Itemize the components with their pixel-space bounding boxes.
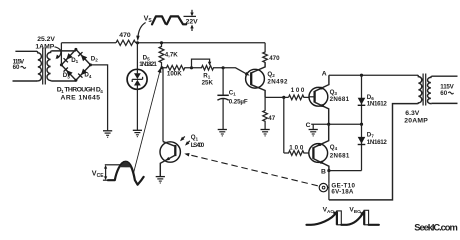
- node A label and rail: [322, 71, 418, 78]
- node junction dot D6 top: [360, 74, 363, 77]
- label: 115V 60~ input: [13, 59, 26, 71]
- label Q4 2N681: [330, 144, 350, 160]
- diode D1 (upper-left edge, pointing to left corner): [64, 53, 73, 62]
- svg-text:20AMP: 20AMP: [404, 118, 428, 125]
- ground (node C): [309, 124, 318, 136]
- light arrows into Q1: [180, 136, 190, 145]
- label D6 1N1612: [367, 94, 388, 107]
- svg-text:2N681: 2N681: [330, 153, 350, 160]
- transformer T1 core: [43, 48, 46, 85]
- transformer T1 primary winding: [37, 51, 42, 81]
- wire: main 22V bus: [61, 42, 116, 44]
- diode D2 (upper-right edge, pointing to top corner): [78, 52, 87, 61]
- label D5 1N1821: [139, 54, 157, 68]
- svg-text:25.2V: 25.2V: [37, 36, 55, 43]
- resistor 100K horizontal: [162, 65, 192, 70]
- label 4,7K: [165, 51, 179, 58]
- bridge rectifier diamond D1-D4: [61, 49, 90, 80]
- svg-text:A: A: [322, 71, 327, 78]
- svg-text:1N1821: 1N1821: [139, 61, 157, 68]
- SCR Q3 2N681: [309, 75, 329, 124]
- wire: D5 bottom to ground: [136, 89, 138, 130]
- potentiometer R1 25K (rheostat with wiper loop): [192, 59, 224, 70]
- labels VAO VBO with pointers: [323, 207, 365, 216]
- wire: bridge right corner to ground: [91, 65, 108, 130]
- label: D1 THROUGH D4 ARE 1N645: [57, 87, 103, 102]
- label 115V 60~ output: [440, 84, 454, 97]
- wire: bridge left corner up to main bus: [60, 43, 62, 65]
- diode D3 (lower-left edge, pointing to left corner): [64, 67, 73, 76]
- wire: secondary bottom lead to bridge bottom corner: [52, 80, 76, 82]
- diode D4 (lower-right edge, pointing to bottom corner): [78, 69, 87, 78]
- label Q1 LS400: [191, 134, 205, 149]
- svg-text:47: 47: [268, 115, 275, 122]
- wire: 115V primary top lead: [15, 50, 36, 52]
- label: 25.2V 1AMP with arrow: [35, 36, 60, 59]
- thin arrow from VCE waveform to Q1 collector node: [133, 67, 161, 173]
- svg-text:25K: 25K: [202, 80, 214, 87]
- svg-text:0.25µF: 0.25µF: [229, 98, 248, 105]
- label D2: [91, 55, 98, 62]
- resistor 4.7K vertical: [159, 43, 164, 68]
- phototransistor Q1 LS400: [160, 68, 180, 177]
- svg-text:1AMP: 1AMP: [35, 44, 54, 51]
- diode D6 1N1612: [358, 75, 366, 124]
- ground (Q1 emitter): [156, 177, 165, 183]
- wire: bottom return rail to output transformer: [329, 104, 418, 200]
- resistor 470 (series, on bus): [116, 40, 136, 45]
- wire: bus continues to 470 vertical corner: [136, 42, 266, 44]
- svg-text:B: B: [321, 169, 326, 176]
- ground (C1): [218, 130, 227, 136]
- watermark SeekIC.com: [414, 221, 458, 232]
- label D7 1N1612: [367, 131, 388, 146]
- unijunction transistor Q2 2N492: [246, 63, 266, 98]
- ground (47 ohm): [261, 130, 270, 136]
- node junction dot gate branch: [282, 96, 285, 99]
- label 100: [291, 87, 305, 94]
- svg-text:100: 100: [289, 144, 304, 151]
- label D1: [71, 57, 78, 64]
- svg-text:1N1612: 1N1612: [367, 100, 388, 107]
- zener D5 1N1821 (in circle): [127, 43, 147, 90]
- diode D7 1N1612: [358, 124, 366, 170]
- label 470: [269, 55, 280, 62]
- svg-text:22V: 22V: [186, 18, 199, 25]
- label Q2 2N492: [267, 71, 288, 85]
- svg-text:2N492: 2N492: [267, 78, 288, 85]
- node Vs junction dot on bus: [136, 41, 139, 44]
- label D4: [84, 72, 91, 79]
- node junction dots on C rail: [327, 123, 363, 126]
- node junction dot R1 wiper tap: [190, 66, 193, 69]
- svg-text:D1 THROUGH D4: D1 THROUGH D4: [57, 87, 103, 94]
- wire: secondary top lead to bridge top corner: [52, 50, 76, 52]
- resistor 100 (Q4 gate): [284, 151, 309, 156]
- svg-text:C: C: [306, 122, 311, 129]
- svg-text:470: 470: [119, 32, 131, 39]
- transformer T1 secondary winding 25.2V: [47, 51, 52, 81]
- label D3: [63, 72, 70, 79]
- waveform Vs (clipped sine, 22V): [152, 10, 198, 31]
- label R1 25K: [202, 72, 214, 86]
- label C1 0.25uF: [229, 89, 248, 105]
- label 100K: [167, 71, 182, 78]
- svg-text:470: 470: [269, 55, 280, 62]
- svg-text:2N681: 2N681: [330, 96, 350, 103]
- wire: vertical to Q4 gate resistor: [283, 97, 285, 153]
- ground (bridge return): [103, 131, 112, 137]
- svg-text:100: 100: [291, 87, 305, 94]
- node junction dot 4.7K bottom / Q1 collector: [160, 66, 163, 69]
- label Vs with curved arrow to bus: [136, 14, 152, 42]
- resistor 470 vertical (Q2 base-two): [263, 43, 268, 63]
- svg-text:60: 60: [13, 64, 20, 71]
- svg-text:1N1612: 1N1612: [367, 139, 388, 146]
- wire: emitter lead from C1 node to Q2: [223, 68, 250, 76]
- SCR Q4 2N681: [309, 124, 329, 170]
- svg-text:6.3V: 6.3V: [405, 110, 419, 117]
- svg-text:ARE 1N645: ARE 1N645: [61, 95, 101, 102]
- output transformer core: [423, 74, 426, 106]
- wire: Q2 base-one node to gates: [265, 96, 288, 98]
- label 470: [119, 32, 131, 39]
- wire: 115V primary bottom lead: [13, 80, 37, 82]
- node 4.7K junction dot on bus: [160, 41, 163, 44]
- capacitor C1 0.25uF: [217, 68, 228, 129]
- label GE-T10 6V-18A: [331, 182, 355, 195]
- output transformer 115V winding: [427, 76, 431, 103]
- svg-text:4,7K: 4,7K: [165, 51, 179, 58]
- resistor 47 vertical: [263, 97, 268, 129]
- svg-text:6V-18A: 6V-18A: [331, 189, 354, 196]
- label 6.3V 20AMP: [404, 110, 428, 125]
- node junction dot C1 top: [222, 66, 225, 69]
- svg-text:SeekIC.com: SeekIC.com: [414, 221, 458, 232]
- node C rail: [306, 122, 362, 129]
- svg-text:60: 60: [440, 90, 447, 97]
- label Q3 2N681: [330, 89, 350, 103]
- waveform VCE with dimension arrows: [92, 162, 144, 185]
- label 100: [289, 144, 304, 151]
- node B label and junction: [321, 169, 362, 184]
- waveforms VAO and VBO: [307, 210, 379, 225]
- ground (D5): [133, 130, 142, 136]
- label 47: [268, 115, 275, 122]
- lamp GE-T10 6V-18A: [319, 183, 329, 200]
- wire: output secondary leads: [432, 76, 458, 103]
- dashed light-coupling arrow from lamp to Q1: [184, 153, 317, 186]
- svg-text:100K: 100K: [167, 71, 182, 78]
- junction dots bridge corners: [60, 48, 92, 82]
- output transformer 6.3V winding: [417, 75, 422, 103]
- svg-text:LS 400: LS 400: [191, 142, 205, 149]
- resistor 100 (Q3 gate): [289, 95, 310, 100]
